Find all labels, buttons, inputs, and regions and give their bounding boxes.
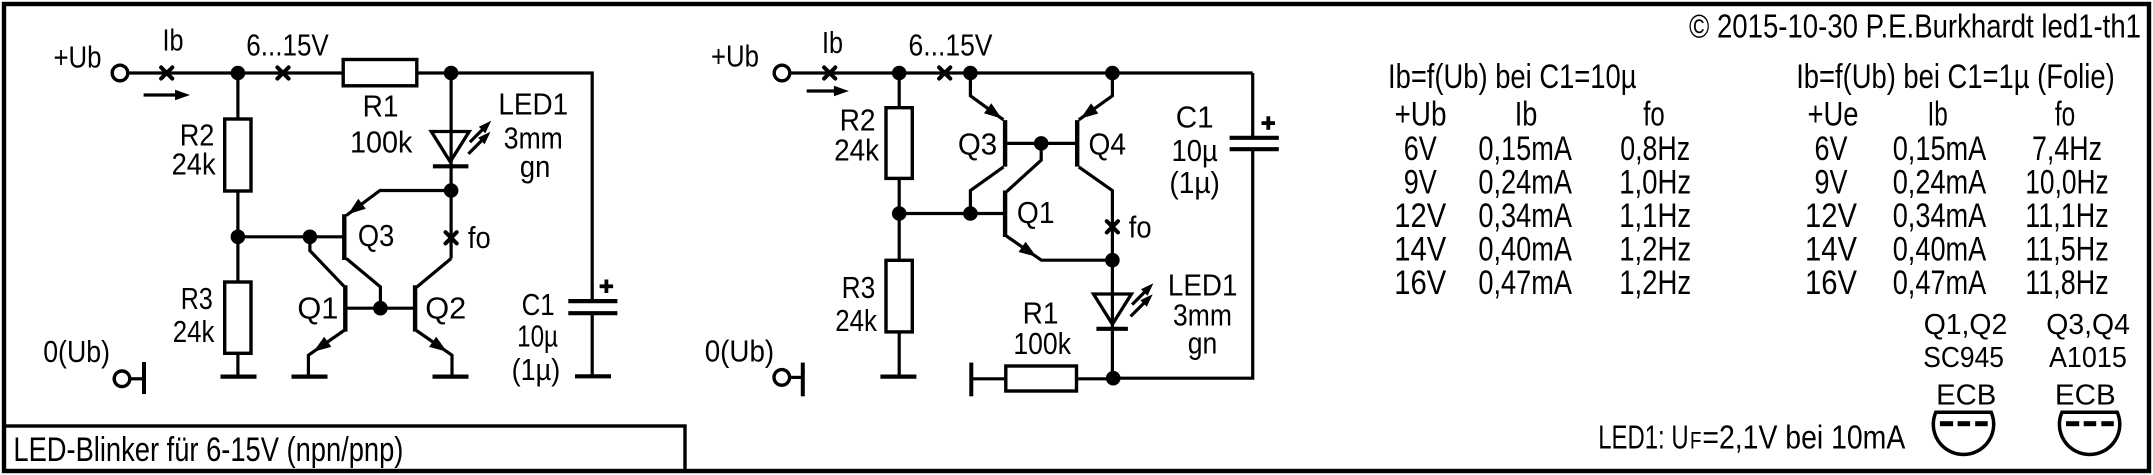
- junction R1/LED1/C1 left circuit: [444, 66, 459, 81]
- svg-text:10,0Hz: 10,0Hz: [2025, 164, 2108, 202]
- wire fo node left circuit: [450, 191, 453, 259]
- wire top rail middle circuit: [791, 71, 1252, 74]
- wire top rail left circuit: [129, 71, 343, 74]
- svg-text:Ib: Ib: [822, 25, 843, 60]
- svg-text:R3: R3: [181, 281, 213, 316]
- svg-text:100k: 100k: [1013, 326, 1071, 361]
- svg-text:0,40mA: 0,40mA: [1893, 230, 1987, 268]
- svg-text:LED-Blinker für 6-15V (npn/pnp: LED-Blinker für 6-15V (npn/pnp): [13, 431, 403, 469]
- svg-text:C1: C1: [522, 287, 555, 322]
- svg-text:6...15V: 6...15V: [909, 28, 993, 63]
- voltage marker middle circuit: [939, 67, 950, 78]
- svg-text:LED1: LED1: [498, 86, 568, 121]
- wire C1 to ground left circuit: [591, 313, 594, 376]
- current arrow Ib left circuit: [144, 93, 177, 96]
- svg-text:ECB: ECB: [2055, 380, 2116, 412]
- Q3 collector wire middle circuit: [970, 167, 1003, 214]
- current marker Ib middle circuit: [824, 67, 835, 78]
- svg-text:Q1: Q1: [1017, 195, 1055, 230]
- junction Q3 collector/Q1 base middle circuit: [963, 206, 978, 221]
- svg-text:16V: 16V: [1805, 264, 1857, 302]
- svg-text:9V: 9V: [1404, 164, 1437, 202]
- wire R3 to ground left circuit: [236, 353, 239, 376]
- svg-text:fo: fo: [1129, 210, 1152, 245]
- resistor R1 middle circuit: [1006, 366, 1077, 391]
- Q3 collector wire left circuit: [346, 259, 380, 309]
- svg-text:0,40mA: 0,40mA: [1478, 230, 1572, 268]
- LED1 diode middle circuit: [1094, 294, 1132, 324]
- Q2 collector wire left circuit: [416, 259, 451, 288]
- svg-text:+Ub: +Ub: [1395, 96, 1447, 134]
- svg-text:R3: R3: [842, 270, 876, 305]
- terminal stub 0(Ub) middle circuit: [790, 376, 803, 379]
- junction rail/Q3 emitter middle circuit: [963, 66, 978, 81]
- Q2 emitter arrow left circuit: [429, 337, 447, 352]
- resistor R1 left circuit: [343, 60, 417, 86]
- svg-text:Q1: Q1: [297, 291, 338, 326]
- package TO-92 SC945 pinout: [1933, 412, 1993, 454]
- svg-text:0,8Hz: 0,8Hz: [1620, 130, 1690, 168]
- svg-text:SC945: SC945: [1923, 342, 2004, 374]
- svg-text:1,1Hz: 1,1Hz: [1619, 197, 1691, 235]
- svg-text:+Ub: +Ub: [711, 39, 759, 74]
- wire R1 to LED node middle circuit: [1077, 377, 1114, 380]
- svg-text:gn: gn: [520, 149, 550, 184]
- wire divider to Q3 base left circuit: [238, 235, 344, 238]
- svg-text:6...15V: 6...15V: [246, 28, 329, 63]
- wire R2 to R3 left circuit: [236, 191, 239, 282]
- junction Q3 base/Q1 collector left circuit: [303, 230, 318, 245]
- current marker Ib left circuit: [161, 67, 172, 78]
- svg-text:0,34mA: 0,34mA: [1478, 197, 1572, 235]
- junction Q3/Q4 base middle circuit: [1034, 136, 1049, 151]
- svg-text:F: F: [1690, 428, 1702, 455]
- svg-text:Q4: Q4: [1089, 127, 1127, 162]
- wire terminator to R1 middle circuit: [971, 377, 1006, 380]
- capacitor C1 plates middle circuit: [1230, 136, 1279, 140]
- junction R2/R3/base left circuit: [231, 230, 246, 245]
- terminal 0(Ub) left circuit: [114, 371, 130, 387]
- junction Q1/Q2 base left circuit: [373, 301, 388, 316]
- wire R1 to C1 corner left circuit: [417, 73, 592, 301]
- current arrow Ib middle circuit: [807, 89, 836, 92]
- ground under Q1 left circuit: [292, 375, 328, 379]
- marker fo middle circuit: [1107, 221, 1118, 232]
- svg-text:Ib: Ib: [1515, 96, 1538, 134]
- svg-text:Ib=f(Ub) bei C1=10µ: Ib=f(Ub) bei C1=10µ: [1388, 58, 1637, 96]
- Q4 emitter wire middle circuit: [1079, 73, 1113, 120]
- wire C1 to rail middle circuit: [1251, 73, 1254, 138]
- Q1 collector wire middle circuit: [1006, 143, 1041, 191]
- Q2 emitter wire left circuit: [416, 331, 452, 377]
- junction rail/R2 left circuit: [231, 66, 246, 81]
- transistor Q1 bar middle circuit: [1003, 191, 1007, 238]
- LED1 light arrow 1 middle circuit: [1132, 288, 1148, 304]
- LED1 light arrow 2 left circuit: [468, 137, 485, 154]
- Q1 emitter arrow middle circuit: [1019, 242, 1037, 257]
- wire Q3 base to Q4 base middle circuit: [1005, 142, 1077, 145]
- Q3 emitter wire left circuit: [346, 191, 451, 216]
- svg-text:6V: 6V: [1404, 130, 1437, 168]
- svg-text:+Ue: +Ue: [1808, 96, 1859, 134]
- transistor Q2 bar left circuit: [413, 285, 417, 331]
- svg-text:LED1: U: LED1: U: [1598, 419, 1688, 456]
- wire rail to R2 left circuit: [236, 73, 239, 119]
- svg-text:(1µ): (1µ): [1169, 165, 1220, 200]
- svg-text:A1015: A1015: [2049, 342, 2127, 374]
- svg-text:12V: 12V: [1805, 197, 1857, 235]
- Q1 emitter wire left circuit: [308, 331, 344, 377]
- terminal +Ub left circuit: [112, 65, 128, 81]
- junction R2/R3/Q1 base middle circuit: [892, 206, 907, 221]
- package TO-92 A1015 pinout: [2059, 412, 2119, 454]
- svg-text:+Ub: +Ub: [54, 40, 102, 75]
- svg-text:Ib=f(Ub) bei C1=1µ (Folie): Ib=f(Ub) bei C1=1µ (Folie): [1796, 58, 2115, 96]
- svg-text:Q3: Q3: [958, 127, 997, 162]
- Q4 emitter arrow middle circuit: [1081, 103, 1099, 118]
- Q1 emitter wire middle circuit: [1006, 236, 1112, 260]
- resistor R3 middle circuit: [886, 260, 912, 332]
- terminal +Ub middle circuit: [774, 65, 790, 81]
- svg-text:0,47mA: 0,47mA: [1478, 264, 1572, 302]
- svg-text:6V: 6V: [1815, 130, 1848, 168]
- wire rail to R2 middle circuit: [898, 73, 901, 108]
- svg-text:C1: C1: [1176, 99, 1214, 134]
- svg-text:7,4Hz: 7,4Hz: [2032, 130, 2102, 168]
- svg-text:ECB: ECB: [1936, 380, 1996, 412]
- svg-text:9V: 9V: [1815, 164, 1848, 202]
- svg-text:16V: 16V: [1394, 264, 1446, 302]
- wire Q1 base to Q2 base left circuit: [345, 307, 415, 310]
- svg-text:1,2Hz: 1,2Hz: [1619, 264, 1691, 302]
- svg-text:1,0Hz: 1,0Hz: [1619, 164, 1691, 202]
- svg-text:© 2015-10-30 P.E.Burkhardt led: © 2015-10-30 P.E.Burkhardt led1-th1: [1689, 8, 2141, 45]
- Q3 emitter arrow left circuit: [348, 199, 366, 214]
- Q1 emitter arrow left circuit: [313, 337, 331, 352]
- svg-text:0,24mA: 0,24mA: [1478, 164, 1572, 202]
- svg-text:0,15mA: 0,15mA: [1893, 130, 1987, 168]
- transistor Q3 bar middle circuit: [1003, 120, 1007, 167]
- wire LED1 branch left circuit: [450, 73, 453, 191]
- svg-text:1,2Hz: 1,2Hz: [1619, 230, 1691, 268]
- title box: [4, 426, 685, 471]
- junction rail/R2 middle circuit: [892, 66, 907, 81]
- svg-text:Q1,Q2: Q1,Q2: [1924, 309, 2008, 341]
- svg-text:14V: 14V: [1394, 230, 1446, 268]
- svg-text:11,5Hz: 11,5Hz: [2025, 230, 2108, 268]
- resistor R3 left circuit: [225, 282, 251, 353]
- svg-text:24k: 24k: [172, 147, 216, 182]
- terminator bar R1 middle circuit: [969, 363, 973, 397]
- ground under Q2 left circuit: [433, 375, 469, 379]
- svg-text:gn: gn: [1188, 326, 1218, 361]
- wire LED1 branch middle circuit: [1111, 260, 1114, 378]
- junction LED1/Q3 emitter left circuit: [444, 183, 459, 198]
- resistor R2 middle circuit: [886, 108, 912, 179]
- svg-text:10µ: 10µ: [517, 318, 558, 353]
- svg-text:24k: 24k: [173, 314, 215, 349]
- svg-text:Ib: Ib: [1928, 96, 1948, 134]
- svg-text:11,1Hz: 11,1Hz: [2025, 197, 2108, 235]
- svg-text:fo: fo: [2055, 96, 2075, 134]
- svg-text:0(Ub): 0(Ub): [705, 334, 775, 369]
- svg-text:Q3,Q4: Q3,Q4: [2046, 309, 2130, 341]
- C1 polarity plus middle circuit: [1262, 121, 1276, 125]
- svg-text:0,15mA: 0,15mA: [1478, 130, 1572, 168]
- svg-text:0,24mA: 0,24mA: [1893, 164, 1987, 202]
- transistor Q1 bar left circuit: [343, 285, 347, 331]
- svg-text:14V: 14V: [1805, 230, 1857, 268]
- svg-text:Ib: Ib: [163, 23, 184, 58]
- svg-text:Q2: Q2: [425, 291, 466, 326]
- svg-text:0(Ub): 0(Ub): [43, 334, 110, 369]
- svg-text:=2,1V bei 10mA: =2,1V bei 10mA: [1702, 419, 1905, 456]
- svg-text:0,47mA: 0,47mA: [1893, 264, 1987, 302]
- Q3 emitter wire middle circuit: [970, 73, 1003, 120]
- transistor Q4 bar middle circuit: [1075, 120, 1079, 167]
- svg-text:10µ: 10µ: [1172, 133, 1218, 168]
- junction R1/LED1/C1 middle circuit: [1106, 371, 1121, 386]
- capacitor C1 plates left circuit: [568, 299, 617, 303]
- C1 polarity plus left circuit: [600, 284, 614, 288]
- LED1 diode left circuit: [431, 132, 469, 162]
- Q4 collector wire middle circuit: [1079, 167, 1113, 260]
- Q1 collector wire left circuit: [310, 237, 344, 286]
- wire R3 to ground middle circuit: [898, 332, 901, 377]
- wire bottom to C1 middle circuit: [1113, 149, 1253, 378]
- svg-text:24k: 24k: [835, 303, 877, 338]
- svg-text:24k: 24k: [834, 133, 879, 168]
- ground under C1 left circuit: [575, 374, 611, 378]
- ground under R3 middle circuit: [880, 375, 916, 379]
- voltage marker left circuit: [277, 67, 288, 78]
- svg-text:fo: fo: [468, 220, 491, 255]
- junction Q4 collector/Q1 emitter/LED middle circuit: [1105, 253, 1120, 268]
- transistor Q3 bar left circuit: [342, 214, 346, 260]
- svg-text:Q3: Q3: [358, 218, 394, 253]
- ground under R3 left circuit: [221, 375, 257, 379]
- wire R2 to R3 middle circuit: [898, 178, 901, 260]
- svg-text:100k: 100k: [350, 125, 413, 160]
- marker fo left circuit: [446, 232, 457, 243]
- terminal 0(Ub) middle circuit: [774, 370, 790, 386]
- junction rail/Q4 emitter middle circuit: [1105, 66, 1120, 81]
- svg-text:fo: fo: [1643, 96, 1665, 134]
- svg-text:0,34mA: 0,34mA: [1893, 197, 1987, 235]
- resistor R2 left circuit: [225, 119, 251, 191]
- Q3 emitter arrow middle circuit: [984, 103, 1002, 118]
- terminal stub 0(Ub) left circuit: [130, 377, 144, 380]
- wire divider to Q1 base middle circuit: [899, 212, 1005, 215]
- LED1 light arrow 2 middle circuit: [1131, 299, 1148, 316]
- svg-text:12V: 12V: [1394, 197, 1446, 235]
- LED1 light arrow 1 left circuit: [470, 126, 486, 142]
- svg-text:11,8Hz: 11,8Hz: [2025, 264, 2108, 302]
- svg-text:(1µ): (1µ): [512, 352, 561, 387]
- svg-text:R1: R1: [363, 89, 399, 124]
